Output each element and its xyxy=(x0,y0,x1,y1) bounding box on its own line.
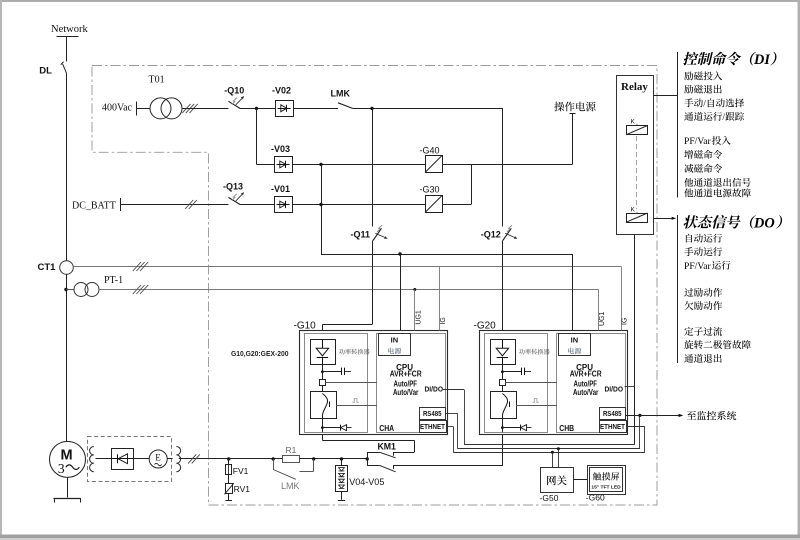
wire chopper to CPU G20 xyxy=(516,405,557,407)
freewheel diode G20 xyxy=(501,419,532,433)
svg-text:FV1: FV1 xyxy=(233,466,249,476)
svg-text:KM1: KM1 xyxy=(378,441,396,451)
wire Network to DL xyxy=(66,36,68,61)
wire R1 to KM1 xyxy=(300,458,368,460)
svg-text:ETHNET: ETHNET xyxy=(600,424,626,431)
svg-text:-Q10: -Q10 xyxy=(224,85,244,95)
svg-text:DC_BATT: DC_BATT xyxy=(72,200,116,211)
wire Q12 to G20 converter input xyxy=(502,241,504,340)
rotating rectifier dashed box xyxy=(88,437,172,482)
wire DC link to CPU G20 xyxy=(505,382,557,384)
DI signal PF/Var投入 xyxy=(684,136,731,147)
contactor KM1 xyxy=(366,441,396,472)
CT CT1 xyxy=(38,261,74,275)
wire Q12 drop xyxy=(502,108,504,226)
label -G60 xyxy=(586,493,605,503)
wire relay to DI bracket xyxy=(653,95,678,97)
wire G10 DI/DO to relay bus xyxy=(443,390,635,445)
DO signal PF/Var运行 xyxy=(684,261,731,272)
DI signal 他通道电源故障 xyxy=(684,188,751,197)
diode module -V01 xyxy=(271,184,293,213)
svg-text:DI/DO: DI/DO xyxy=(425,385,444,394)
label 功率转换器 G20 xyxy=(519,349,550,355)
excitation cubicle dash-dot border xyxy=(92,66,657,506)
disconnector -Q12 xyxy=(481,225,518,240)
svg-text:-G50: -G50 xyxy=(540,493,559,503)
RS485 port G10 xyxy=(420,408,446,420)
label IG rotated xyxy=(622,318,629,325)
wire main vertical CT1 to PT-1 xyxy=(66,274,68,441)
svg-text:DI/DO: DI/DO xyxy=(605,385,624,394)
label 功率转换器 G10 xyxy=(339,349,370,355)
wire relay bottom to DI/DO bus xyxy=(634,235,636,445)
wire CT1 bus IG xyxy=(73,262,621,271)
DI signal 减磁命令 xyxy=(684,164,722,173)
svg-text:Auto/Var: Auto/Var xyxy=(393,388,419,397)
rotor winding coil xyxy=(90,447,94,472)
svg-text:CHB: CHB xyxy=(559,423,574,433)
CPU text G10 xyxy=(390,363,422,397)
bypass switch LMK (field) xyxy=(272,457,316,491)
svg-text:AVR+FCR: AVR+FCR xyxy=(570,370,602,379)
heading 状态信号 (DO) xyxy=(683,215,784,231)
DI signal 增磁命令 xyxy=(684,150,722,159)
svg-text:UG1: UG1 xyxy=(415,310,422,325)
fuse FV1 xyxy=(226,459,249,476)
svg-text:LMK: LMK xyxy=(281,481,300,491)
label -G50 xyxy=(540,493,559,503)
relay internal dashed link xyxy=(636,136,638,209)
svg-text:ETHNET: ETHNET xyxy=(420,424,446,431)
DO signal 过励动作 xyxy=(684,288,722,297)
svg-text:IN: IN xyxy=(391,336,399,345)
svg-text:V04-V05: V04-V05 xyxy=(349,477,384,487)
wire G20 DI/DO to relay drop xyxy=(625,386,635,388)
label DI/DO G20 xyxy=(605,385,624,394)
wire chopper to CPU G10 xyxy=(336,405,377,407)
diode module -V02 xyxy=(272,85,294,116)
wire IG drop to G20 xyxy=(621,267,623,331)
varistor RV1 xyxy=(224,475,250,501)
gateway box 网关 xyxy=(541,468,574,493)
label G10,G20:GEX-200 xyxy=(231,349,289,358)
svg-text:-Q12: -Q12 xyxy=(481,229,501,239)
heading 控制命令 (DI) xyxy=(682,52,777,68)
ETHNET port G10 xyxy=(420,421,447,433)
label UG1 rotated xyxy=(415,310,422,325)
svg-text:-V01: -V01 xyxy=(271,184,290,194)
DI signal 他通道退出信号 xyxy=(684,178,751,187)
svg-text:Auto/Var: Auto/Var xyxy=(573,388,599,397)
breaker DL xyxy=(39,62,67,77)
diode module -V03 xyxy=(271,144,293,173)
svg-text:RV1: RV1 xyxy=(234,484,251,494)
svg-text:DI: DI xyxy=(753,52,770,68)
DI signal 通道运行/跟踪 xyxy=(684,112,744,123)
wire IG drop to G10 xyxy=(439,267,441,331)
label IG rotated xyxy=(440,317,447,324)
IN power box G10 xyxy=(379,334,411,356)
wire DC bus to electronics supply xyxy=(321,164,573,333)
freewheel diode G10 xyxy=(321,419,352,433)
chopper switch G20 xyxy=(491,392,517,419)
exciter E xyxy=(149,450,167,468)
svg-text:CHA: CHA xyxy=(379,423,394,433)
CPU text G20 xyxy=(570,363,602,397)
disconnector -Q13 xyxy=(223,182,244,205)
wire Q13 to V01 xyxy=(240,204,275,206)
wire KM1 lower contact to G20 output xyxy=(393,435,503,466)
wire V03 to G40 xyxy=(292,163,425,166)
label 至监控系统 xyxy=(687,411,736,420)
svg-text:-G30: -G30 xyxy=(420,185,440,195)
svg-text:/: / xyxy=(703,99,706,110)
svg-text:-G10: -G10 xyxy=(294,320,317,331)
svg-text:CT1: CT1 xyxy=(38,262,57,273)
svg-text:IN: IN xyxy=(571,336,579,345)
transformer T01 xyxy=(149,75,183,119)
svg-text:/: / xyxy=(722,112,725,123)
PT PT-1 xyxy=(64,275,123,297)
wire gateway to touchscreen xyxy=(573,479,587,481)
DO signal 手动运行 xyxy=(684,247,722,256)
wire T01 to Q10 xyxy=(182,104,228,113)
node Network xyxy=(51,24,88,37)
thyristor bridge G10 xyxy=(311,339,336,364)
svg-text:15″ TFT LED: 15″ TFT LED xyxy=(591,485,621,491)
wire monitoring link xyxy=(626,414,684,417)
wire Q11 to G10 converter input xyxy=(322,241,372,340)
svg-text:DL: DL xyxy=(39,66,52,77)
converter DC link G20 xyxy=(500,365,532,392)
DO signal 旋转二极管故障 xyxy=(684,340,751,349)
DO signal 定子过流 xyxy=(684,327,722,336)
surge suppressors V04-V05 xyxy=(336,457,385,500)
wire M to ground xyxy=(67,478,69,498)
relay K2 xyxy=(626,207,648,223)
svg-text:G10,G20:GEX-200: G10,G20:GEX-200 xyxy=(231,349,289,358)
RS485 port G20 xyxy=(600,408,626,420)
thyristor bridge G20 xyxy=(491,339,516,364)
wire V01 to G30 xyxy=(292,203,425,206)
wire field to R1 xyxy=(229,458,283,460)
resistor R1 xyxy=(283,445,300,463)
wire UG1 drop to G20 xyxy=(598,290,600,331)
power module -G40 xyxy=(420,145,443,172)
svg-text:-Q13: -Q13 xyxy=(223,182,243,192)
label CHA xyxy=(379,423,394,433)
wire PT-1 bus UG1 xyxy=(99,285,598,294)
wire UG1 drop to G10 xyxy=(413,288,416,331)
svg-text:DO: DO xyxy=(753,215,775,231)
wire V02 to LMK xyxy=(293,108,338,110)
svg-text:RS485: RS485 xyxy=(603,409,622,418)
wire buses to gateway xyxy=(551,447,560,467)
wire G30 output riser xyxy=(443,164,472,204)
svg-text:-V02: -V02 xyxy=(272,85,291,95)
disconnector -Q11 xyxy=(351,225,388,240)
wire KM1 upper contact to G10 output xyxy=(322,435,414,453)
converter DC link G10 xyxy=(320,365,352,392)
svg-text:T01: T01 xyxy=(149,75,165,86)
label UG1 rotated xyxy=(599,312,606,327)
wire winding to rectifier xyxy=(96,458,112,460)
AVR channel box -G20 xyxy=(474,320,628,434)
ETHNET port G20 xyxy=(600,421,627,433)
power module -G30 xyxy=(420,185,443,213)
svg-text:IG: IG xyxy=(440,317,447,324)
svg-text:-V03: -V03 xyxy=(271,144,290,154)
svg-text:IG: IG xyxy=(622,318,629,325)
svg-text:-Q11: -Q11 xyxy=(351,229,371,239)
IN power box G20 xyxy=(559,334,591,356)
svg-text:-G20: -G20 xyxy=(474,320,497,331)
relay box Relay xyxy=(617,76,654,235)
wire Q10 to V02 xyxy=(240,107,276,110)
disconnector -Q10 xyxy=(224,85,244,108)
svg-text:PF/Var: PF/Var xyxy=(684,136,711,147)
DI signal 励磁退出 xyxy=(684,85,721,94)
wire LMK junction down to Q11 xyxy=(372,108,374,226)
wire G40 to control power drop xyxy=(443,164,573,166)
wire DC_BATT to Q13 xyxy=(121,200,229,209)
DO signal 欠励动作 xyxy=(684,301,722,310)
wire rectifier to exciter E xyxy=(134,458,150,460)
ground xyxy=(54,498,81,503)
DI signal 励磁投入 xyxy=(684,71,722,80)
generator M1 xyxy=(50,441,86,477)
wire G10 ETHNET bus xyxy=(446,427,645,453)
svg-text:PT-1: PT-1 xyxy=(104,275,123,286)
exciter field coil xyxy=(167,447,180,472)
wire G10 RS485 bus xyxy=(446,414,640,449)
label CHB xyxy=(559,423,574,433)
DI signal 手动/自动选择 xyxy=(684,98,744,109)
wire LMK to Q12 drop xyxy=(353,107,503,110)
svg-text:3: 3 xyxy=(58,461,65,476)
svg-text:RS485: RS485 xyxy=(423,409,442,418)
node 400Vac xyxy=(102,102,137,116)
svg-text:Network: Network xyxy=(51,24,88,35)
svg-text:AVR+FCR: AVR+FCR xyxy=(390,370,422,379)
node DC_BATT xyxy=(72,198,121,211)
AVR channel box -G10 xyxy=(294,320,448,434)
touchscreen box 触摸屏 xyxy=(588,466,626,495)
svg-text:LMK: LMK xyxy=(331,89,351,99)
svg-text:400Vac: 400Vac xyxy=(102,102,133,113)
rectifier V (rotating diode) xyxy=(111,449,134,470)
svg-text:E: E xyxy=(155,453,161,463)
wire field circuit xyxy=(179,454,229,463)
svg-text:-G40: -G40 xyxy=(420,145,440,155)
wire DL to CT1 xyxy=(66,74,68,261)
DO signal 通道退出 xyxy=(684,354,721,363)
svg-text:PF/Var: PF/Var xyxy=(684,261,711,272)
relay K1 xyxy=(626,119,648,135)
node FV1 junction xyxy=(227,457,230,460)
pulse mark G20 xyxy=(533,399,539,403)
switch LMK xyxy=(331,89,353,109)
wire DC link to CPU G10 xyxy=(325,382,377,384)
wire relay to DO arrow xyxy=(653,217,676,220)
svg-text:Relay: Relay xyxy=(621,81,648,93)
wire 400Vac to T01 xyxy=(136,108,150,110)
wire Q10 junction down to V03 xyxy=(257,108,275,164)
svg-text:-G60: -G60 xyxy=(586,493,605,503)
label DI/DO G10 xyxy=(425,385,444,394)
node control power 操作电源 xyxy=(554,102,595,165)
DI bracket line xyxy=(677,52,679,198)
pulse mark G10 xyxy=(353,399,359,403)
DO signal 自动运行 xyxy=(686,234,722,243)
svg-text:R1: R1 xyxy=(286,445,297,455)
DO bracket line xyxy=(677,215,679,363)
svg-text:UG1: UG1 xyxy=(599,312,606,327)
chopper switch G10 xyxy=(311,392,337,419)
